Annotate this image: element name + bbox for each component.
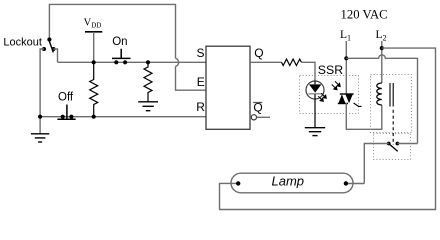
relay contact right terminal: [396, 142, 400, 146]
wire left grounding rail: [40, 49, 44, 134]
wire Q output to resistor: [250, 61, 282, 63]
wire top feedback from lockout pole to E line: [49, 4, 175, 58]
relay contact left terminal: [387, 142, 391, 146]
ground left: [31, 134, 49, 142]
svg-text:S: S: [197, 46, 205, 60]
wire L1 lead down to triac: [345, 41, 347, 94]
wire lockout right contact to S rail: [54, 49, 58, 62]
wire contact right to L1 branch: [397, 143, 417, 145]
node R2 top junction on S rail: [146, 60, 150, 64]
wire L2 lead: [381, 41, 383, 83]
LED emission arrows: [318, 93, 326, 101]
wire S rail: [58, 61, 207, 63]
lamp left electrode: [236, 181, 240, 185]
wire L1 branch with hop over L2: [346, 55, 417, 144]
LED of SSR: [306, 81, 324, 128]
relay dotted enclosure lower: [374, 134, 411, 160]
wire Q-bar stub: [257, 116, 270, 118]
node L1 branch junction: [344, 56, 348, 60]
lamp right electrode: [344, 181, 348, 185]
wire R rail: [40, 116, 206, 118]
wire R3 to LED: [302, 62, 316, 81]
node R1 bottom junction on R rail: [92, 115, 96, 119]
wire E line lower segment into E input: [176, 66, 207, 90]
resistor R3 LED series: [282, 59, 302, 65]
svg-text:120 VAC: 120 VAC: [341, 8, 388, 22]
triac of SSR: [338, 94, 354, 104]
node Off left contact: [61, 115, 65, 119]
wire E line hop over S rail: [176, 58, 179, 66]
svg-text:Lamp: Lamp: [272, 173, 305, 188]
mechanical link dashed: [392, 110, 394, 145]
latch box U1: [206, 46, 250, 129]
power VDD bar: [85, 31, 102, 33]
relay core bars: [389, 83, 391, 107]
node On right contact: [123, 60, 127, 64]
switch On pushbutton actuator: [112, 49, 131, 59]
node L2 branch junction: [380, 46, 384, 50]
switch lockout blade: [49, 40, 53, 52]
opto receiver arrows: [332, 81, 340, 89]
node R rail / left rail junction: [38, 115, 42, 119]
lamp tube: [231, 173, 353, 193]
svg-text:SSR: SSR: [318, 63, 343, 77]
switch lockout left contact: [42, 47, 46, 51]
svg-text:E: E: [197, 75, 205, 89]
ground R2: [138, 102, 158, 111]
svg-text:Off: Off: [58, 92, 74, 104]
wire VDD to S rail: [93, 32, 95, 63]
node VDD junction on S rail: [92, 60, 96, 64]
overbar of Q-bar: [253, 102, 262, 104]
svg-text:R: R: [196, 100, 205, 114]
node Off right contact: [69, 115, 73, 119]
wire triac bottom to relay coil bottom: [346, 103, 382, 129]
resistor R2 pull-down: [144, 62, 152, 102]
SSR dotted enclosure: [300, 76, 359, 114]
resistor R1 pull-up: [90, 62, 98, 116]
relay contact blade: [389, 144, 398, 152]
bubble on Q-bar output: [251, 115, 256, 120]
svg-text:Q: Q: [254, 46, 263, 60]
ground LED: [305, 128, 325, 136]
node On left contact: [114, 60, 118, 64]
wire L2 branch to right rail down to bottom rail to lamp left: [220, 48, 436, 209]
relay dotted enclosure upper: [371, 75, 412, 133]
switch lockout right contact: [52, 47, 56, 51]
relay coil K1: [377, 83, 382, 105]
svg-text:Lockout: Lockout: [3, 37, 42, 49]
switch lockout pole junction: [47, 37, 51, 41]
gate stub of triac: [354, 103, 362, 106]
svg-text:On: On: [112, 36, 127, 48]
switch Off pushbutton actuator: [57, 105, 75, 120]
wire contact left to lamp right electrode: [346, 144, 389, 184]
